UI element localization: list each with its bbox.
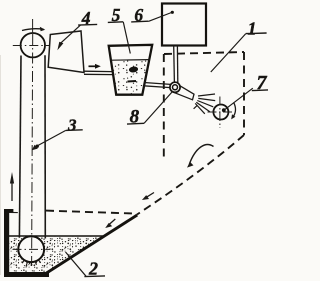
svg-text:3: 3 [67, 115, 77, 134]
svg-text:1: 1 [248, 19, 257, 39]
svg-text:2: 2 [88, 258, 98, 278]
